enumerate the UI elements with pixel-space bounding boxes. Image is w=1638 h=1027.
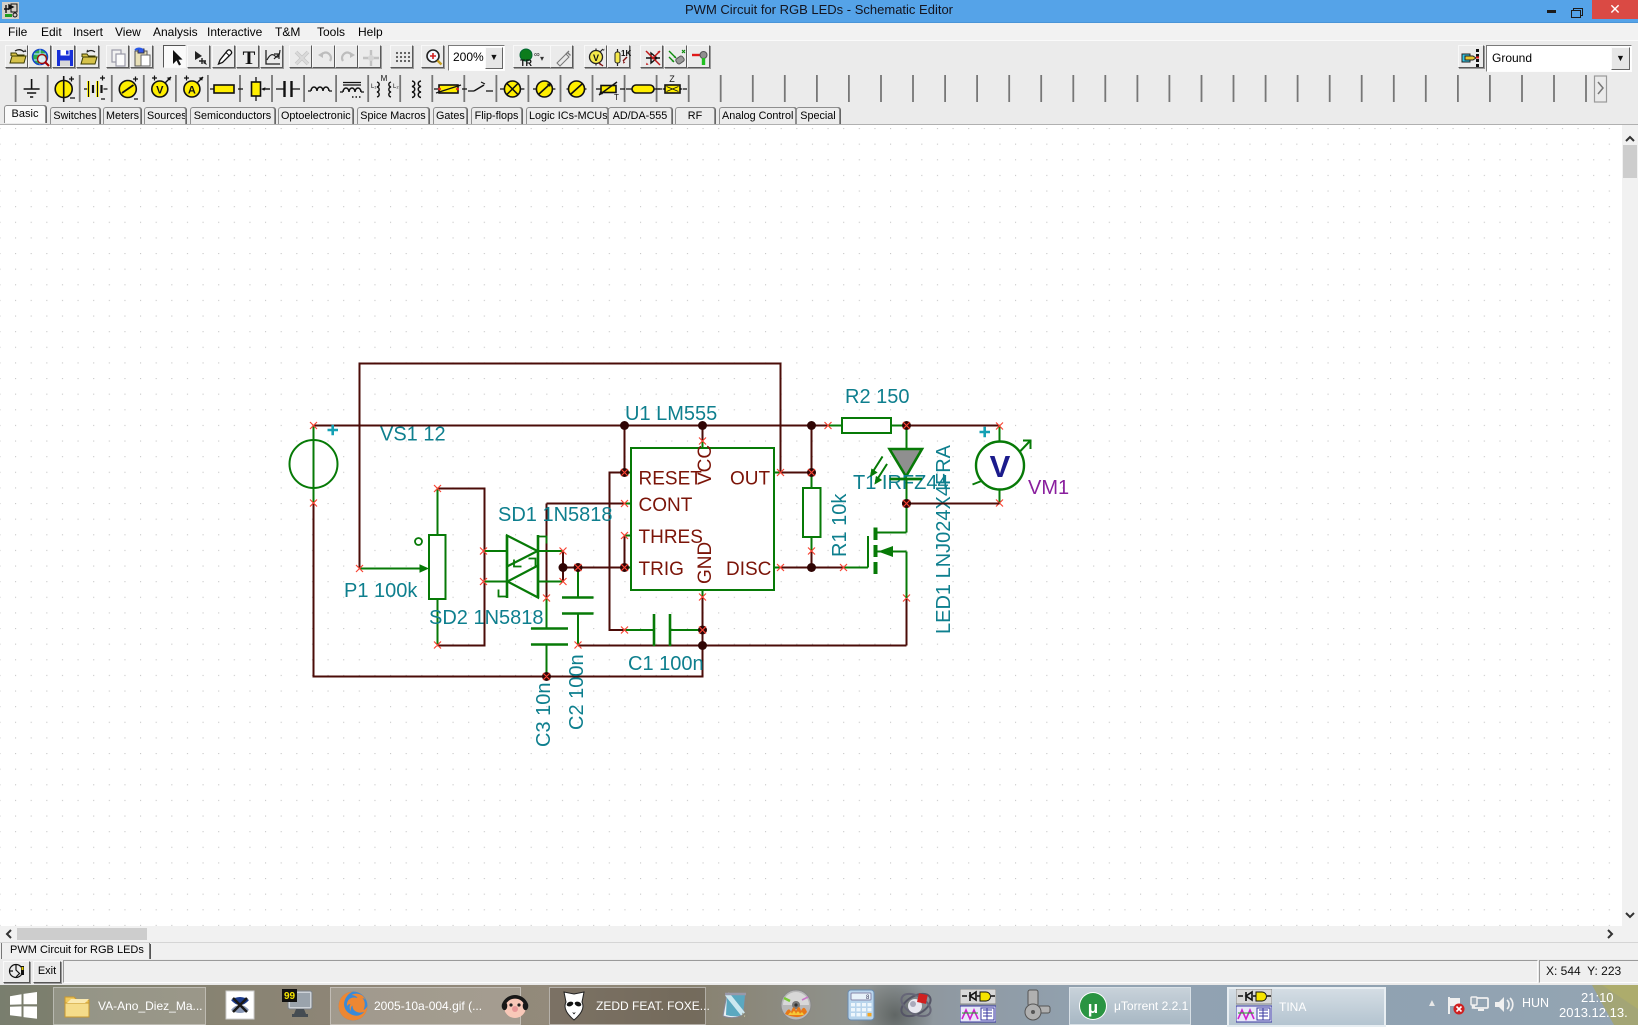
svg-text:1K: 1K <box>621 49 631 58</box>
svg-text:Z: Z <box>669 74 675 84</box>
svg-text:99: 99 <box>284 991 296 1002</box>
svg-text:M: M <box>381 74 388 83</box>
svg-text:A: A <box>188 85 196 97</box>
svg-text:V: V <box>156 85 164 97</box>
svg-text:V: V <box>592 53 598 63</box>
svg-text:TR: TR <box>520 58 532 68</box>
svg-text:μ: μ <box>1088 998 1098 1017</box>
svg-text:L₂: L₂ <box>393 84 399 90</box>
svg-text:L₁: L₁ <box>371 84 376 90</box>
svg-text:T: T <box>614 93 619 102</box>
svg-text:T: T <box>243 48 256 69</box>
svg-text:▾: ▾ <box>540 54 544 63</box>
